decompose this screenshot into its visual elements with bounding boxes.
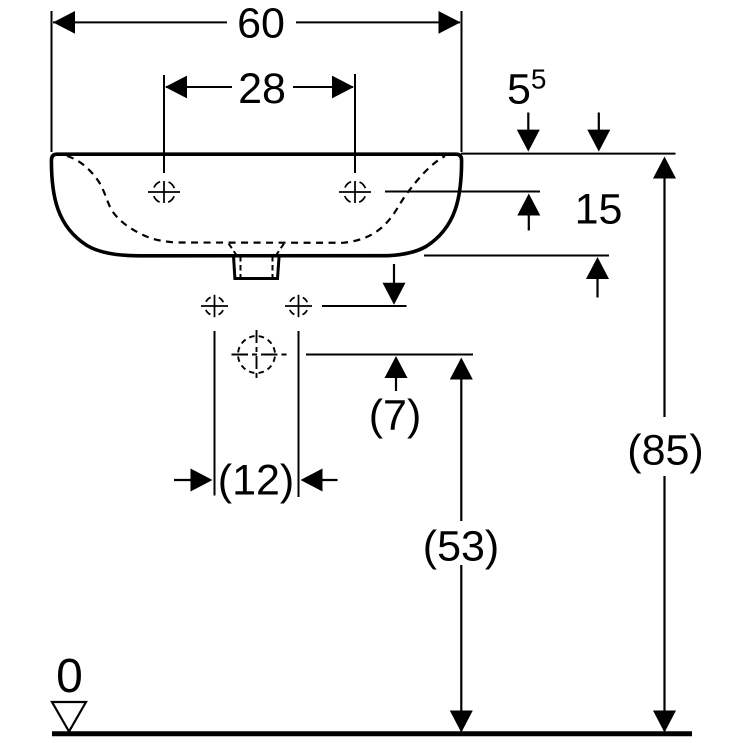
svg-text:(53): (53) bbox=[423, 523, 499, 571]
svg-text:15: 15 bbox=[575, 185, 623, 233]
svg-text:(85): (85) bbox=[627, 427, 703, 475]
svg-text:(12): (12) bbox=[218, 457, 294, 505]
svg-text:28: 28 bbox=[238, 65, 286, 113]
svg-text:0: 0 bbox=[56, 650, 83, 703]
svg-text:(7): (7) bbox=[369, 392, 422, 440]
svg-text:60: 60 bbox=[237, 0, 285, 48]
